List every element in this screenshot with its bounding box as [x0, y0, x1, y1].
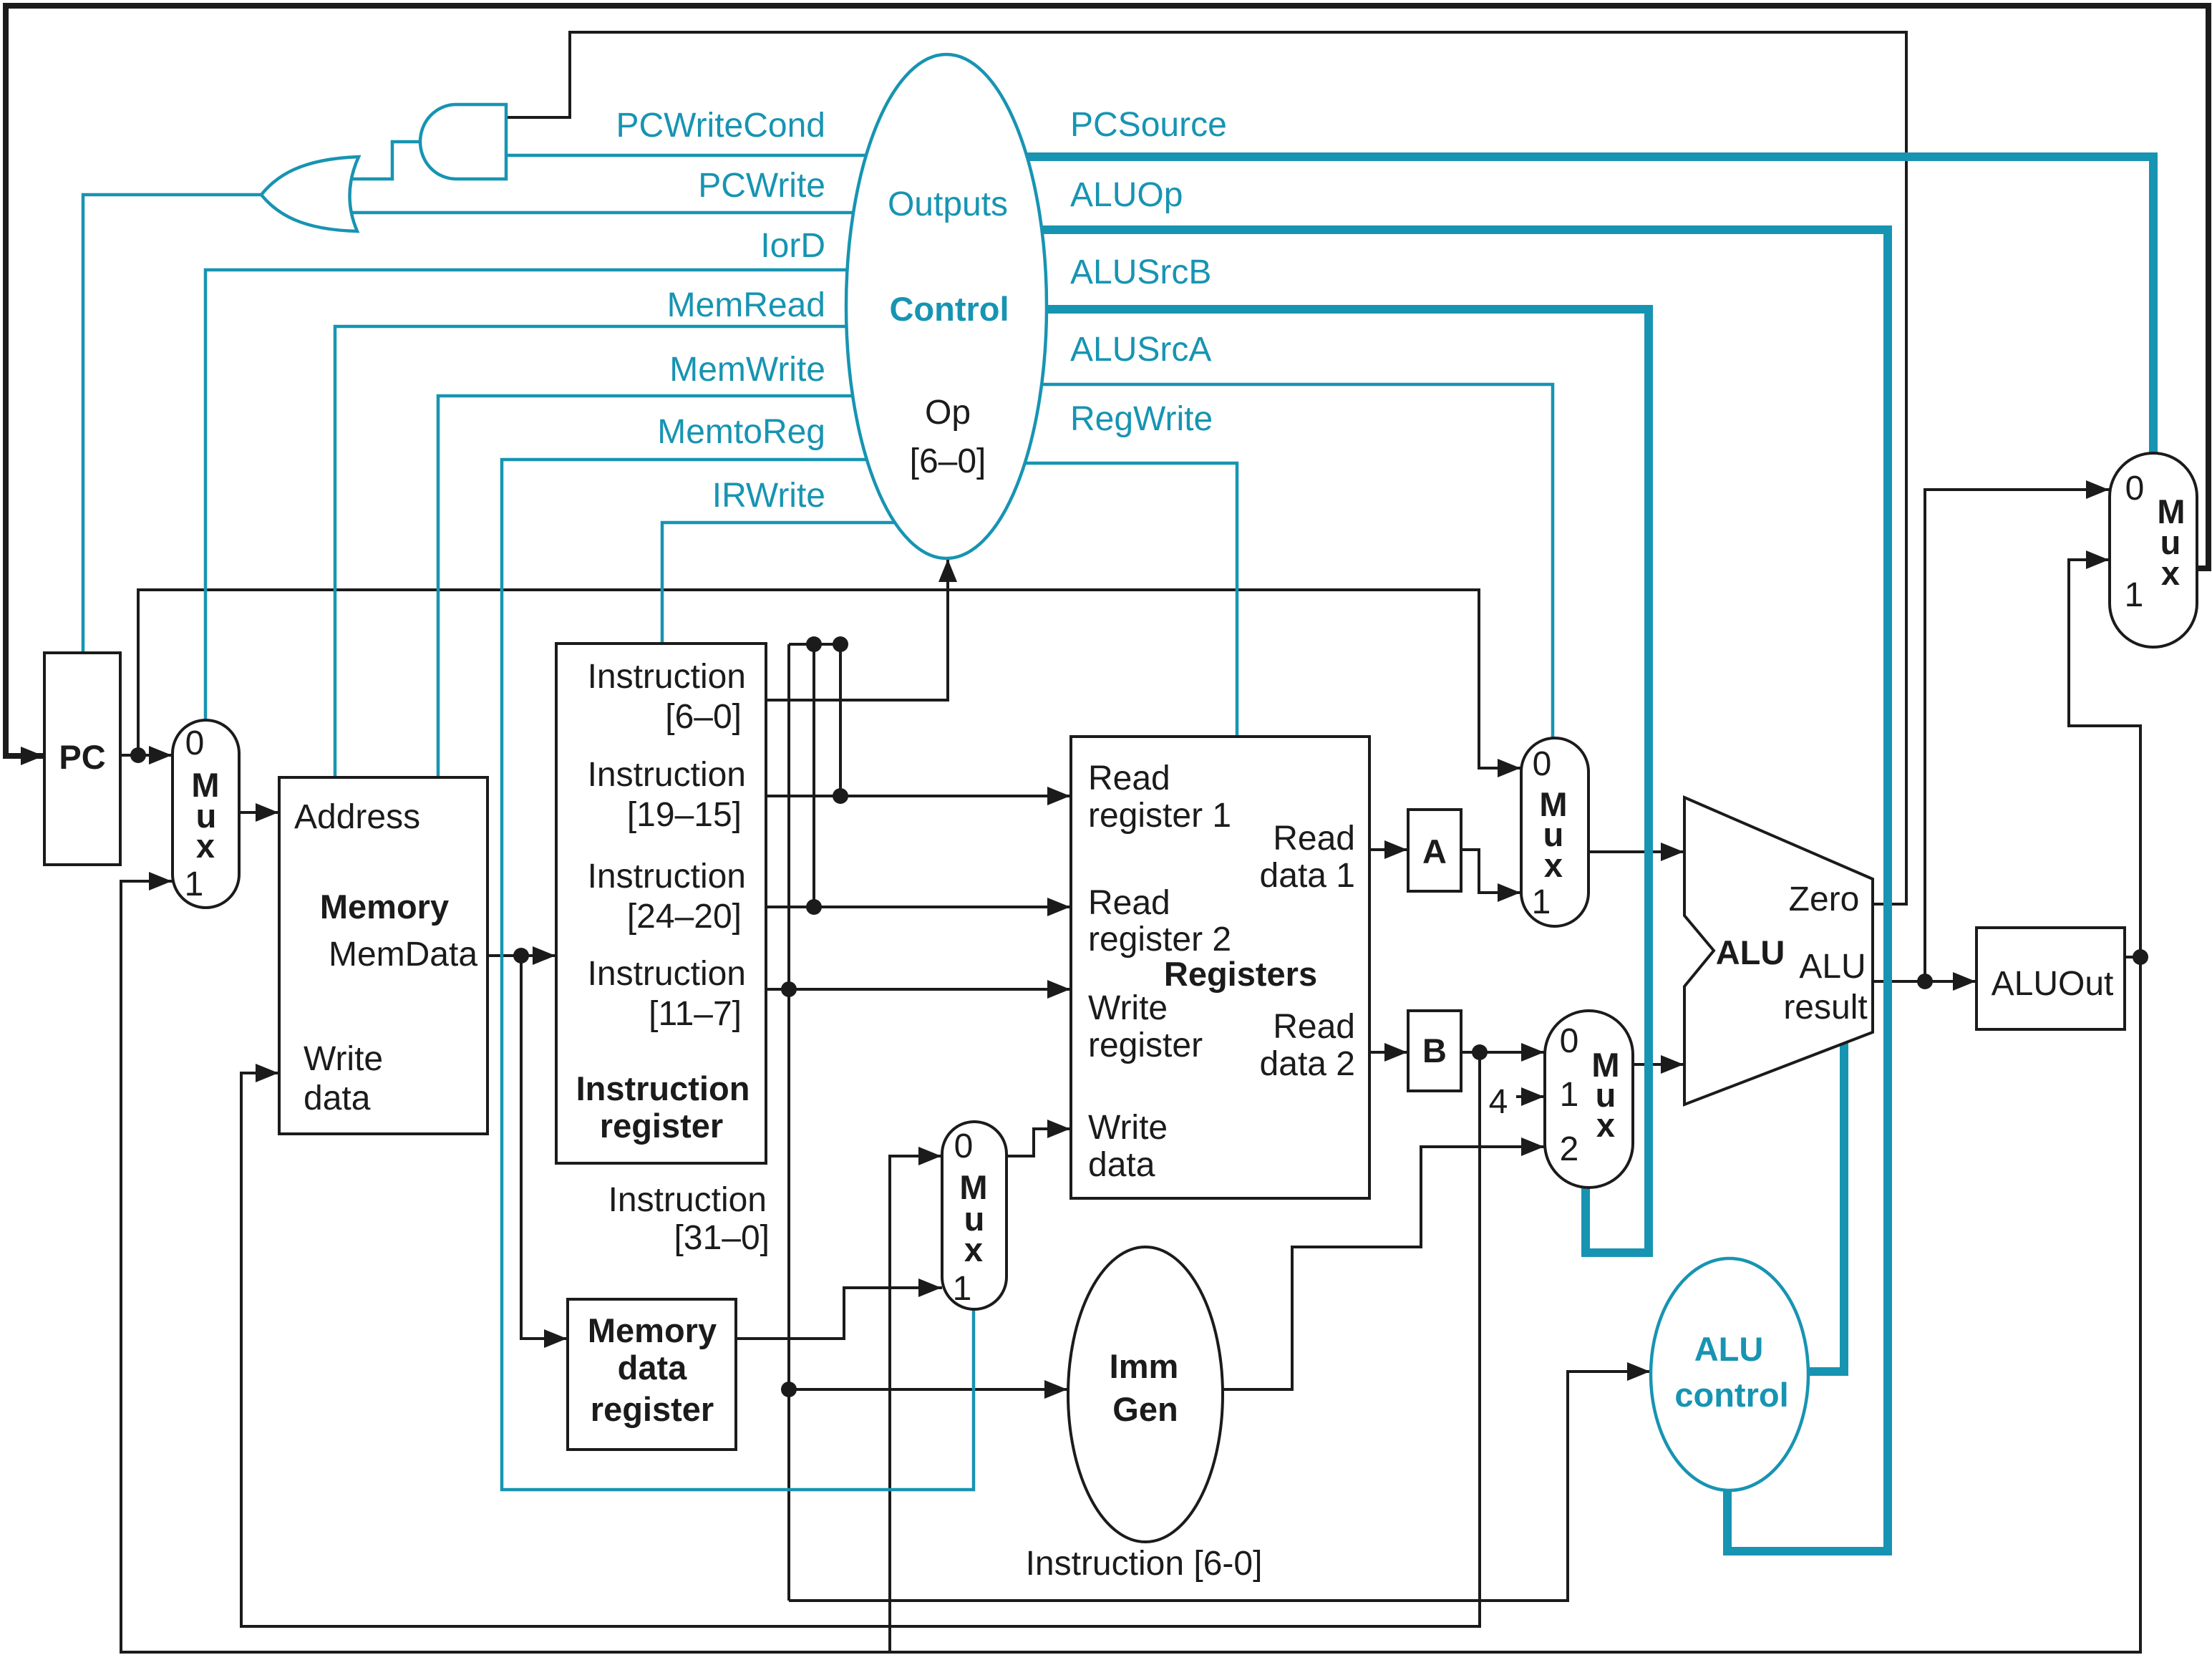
wire: ALU control output to ALU	[1808, 1043, 1844, 1372]
register B	[1408, 1011, 1461, 1091]
wire: Read data 2 to B register	[1369, 1051, 1408, 1054]
node: MemData junction	[513, 948, 529, 964]
Imm Gen ellipse	[1068, 1247, 1223, 1542]
wire: PC output to IorD mux input 0	[122, 754, 173, 757]
svg-text:1: 1	[953, 1270, 972, 1308]
mux A (ALUSrcA mux)	[1521, 738, 1588, 926]
svg-text:data: data	[304, 1079, 371, 1117]
svg-text:0: 0	[185, 724, 205, 762]
svg-text:Instruction [6-0]: Instruction [6-0]	[1026, 1545, 1263, 1583]
svg-text:data 1: data 1	[1260, 857, 1355, 895]
wire: MemWrite from Control to Memory	[438, 396, 855, 777]
wire: PCWrite from Control to OR gate	[352, 211, 855, 215]
wire: IRWrite from Control to Instruction register	[662, 523, 898, 644]
mux write-data (MemtoReg mux)	[942, 1122, 1006, 1309]
wire: MemRead from Control to Memory	[335, 326, 849, 777]
svg-text:Instruction: Instruction	[588, 955, 746, 993]
svg-text:[24–20]: [24–20]	[627, 898, 742, 936]
wire: A-mux output to ALU	[1588, 850, 1684, 853]
svg-text:Instruction: Instruction	[588, 756, 746, 794]
svg-text:Write: Write	[1088, 1109, 1168, 1147]
node: Instruction[19-15] tap junction	[833, 788, 848, 804]
svg-text:4: 4	[1489, 1083, 1508, 1121]
OR gate	[261, 157, 359, 231]
memory data register	[568, 1299, 736, 1450]
svg-text:Read: Read	[1088, 884, 1170, 922]
svg-text:register: register	[591, 1390, 714, 1428]
svg-text:1: 1	[185, 865, 204, 903]
svg-text:x: x	[2161, 554, 2180, 592]
wire: IorD mux output to Memory Address	[239, 811, 279, 814]
node: ALU result junction	[1917, 974, 1933, 989]
svg-text:[19–15]: [19–15]	[627, 796, 742, 834]
svg-text:1: 1	[2125, 576, 2144, 614]
mux IorD (below PC)	[173, 720, 239, 908]
svg-text:ALU: ALU	[1694, 1330, 1764, 1368]
svg-text:x: x	[1544, 846, 1563, 884]
ALU control ellipse	[1651, 1258, 1808, 1490]
instruction register	[556, 644, 766, 1163]
svg-text:0: 0	[1560, 1022, 1579, 1060]
node: Instruction[11-7] tap junction	[781, 981, 797, 997]
wire: Instruction[24-20] to Read register 2	[766, 906, 1071, 908]
node: ALUOut output junction	[2133, 949, 2148, 965]
wire: ALUSrcA from Control to A-mux select	[1039, 384, 1553, 738]
wire: write-data mux output to Registers Write data	[1006, 1129, 1071, 1156]
svg-text:x: x	[1596, 1106, 1615, 1144]
svg-text:Read: Read	[1088, 759, 1170, 797]
svg-text:Instruction: Instruction	[576, 1069, 750, 1107]
wire: PCSource from Control to PCSource mux select	[1024, 157, 2153, 453]
svg-text:Instruction: Instruction	[588, 858, 746, 895]
wire: OR gate output to PC write enable	[83, 195, 261, 653]
register file Registers	[1071, 737, 1369, 1198]
wire: B-mux output to ALU	[1633, 1063, 1684, 1066]
wire: instruction bus stub above IR	[789, 643, 840, 646]
wire: IorD from Control to IorD mux select	[205, 270, 850, 720]
svg-text:register 1: register 1	[1088, 797, 1231, 835]
control unit ellipse	[846, 54, 1047, 558]
svg-text:Zero: Zero	[1789, 880, 1860, 918]
svg-text:[31–0]: [31–0]	[674, 1219, 770, 1257]
wire: PC output up and across to A-mux input 0	[138, 590, 1521, 768]
svg-text:Control: Control	[889, 290, 1009, 328]
svg-text:Memory: Memory	[588, 1311, 717, 1349]
svg-text:ALUOut: ALUOut	[1992, 965, 2114, 1003]
svg-text:[11–7]: [11–7]	[649, 995, 742, 1033]
svg-text:Write: Write	[1088, 989, 1168, 1027]
node: B register output junction	[1472, 1044, 1488, 1060]
wire: Imm Gen output to B-mux input 2	[1223, 1147, 1545, 1389]
svg-text:x: x	[196, 827, 215, 865]
wire: B register loop to Memory Write data	[241, 1052, 1480, 1626]
svg-text:ALUSrcA: ALUSrcA	[1070, 331, 1211, 369]
svg-text:PCWrite: PCWrite	[698, 167, 825, 205]
wire: instruction tap to Instruction[24-20] line	[812, 644, 815, 907]
svg-text:Instruction: Instruction	[588, 658, 746, 696]
svg-text:MemData: MemData	[329, 936, 477, 974]
wire: instruction bus vertical to bottom	[787, 644, 790, 1601]
svg-text:Read: Read	[1273, 820, 1355, 858]
wire: ALUOut up to PCSource mux input 1	[2069, 560, 2140, 957]
svg-text:IorD: IorD	[760, 227, 825, 265]
svg-text:Registers: Registers	[1164, 955, 1317, 993]
svg-text:Gen: Gen	[1112, 1390, 1178, 1428]
wire: ALUSrcB from Control to B-mux select	[1044, 309, 1649, 1253]
svg-text:ALU: ALU	[1799, 948, 1866, 986]
wire: ALU result up to PCSource mux input 0	[1925, 490, 2110, 981]
wire: MemData branch down to Memory data register	[521, 956, 568, 1339]
wire: ALUOut bottom loop to write-data mux input 0	[890, 1156, 942, 1652]
svg-text:Imm: Imm	[1110, 1347, 1179, 1385]
svg-text:MemtoReg: MemtoReg	[657, 413, 825, 451]
svg-text:Memory: Memory	[320, 888, 449, 926]
svg-text:x: x	[964, 1231, 983, 1268]
svg-text:A: A	[1422, 833, 1447, 870]
wire: Instruction[19-15] to Read register 1	[766, 795, 1071, 797]
mux PCSource (top right)	[2110, 453, 2197, 647]
svg-text:IRWrite: IRWrite	[712, 477, 825, 515]
svg-text:Instruction: Instruction	[608, 1181, 767, 1219]
svg-text:data: data	[1088, 1146, 1155, 1184]
node: Instruction[24-20] tap junction	[806, 899, 822, 915]
mux B (ALUSrcB mux)	[1545, 1011, 1633, 1188]
wire: B register to B-mux input 0	[1461, 1051, 1545, 1054]
wire: ALUOp from Control to ALU control	[1039, 230, 1888, 1551]
svg-text:PCWriteCond: PCWriteCond	[616, 107, 825, 145]
svg-text:data: data	[618, 1349, 688, 1387]
wire: PCSource mux output loop around page to PC input	[6, 6, 2208, 756]
AND gate	[420, 105, 506, 179]
svg-text:RegWrite: RegWrite	[1070, 400, 1213, 438]
node: PC output junction	[130, 747, 146, 763]
wire: Zero loop from ALU around top to AND gate	[506, 32, 1906, 904]
svg-text:1: 1	[1560, 1076, 1579, 1114]
svg-text:PC: PC	[59, 738, 105, 776]
register PC	[44, 653, 120, 865]
svg-text:ALU: ALU	[1716, 933, 1785, 971]
svg-text:Write: Write	[304, 1040, 383, 1078]
wire: A register to A-mux input 1	[1461, 850, 1521, 893]
wire: Instruction[11-7] to Write register	[766, 988, 1071, 991]
wire: RegWrite from Control to Registers	[1022, 463, 1237, 737]
svg-text:1: 1	[1532, 883, 1551, 921]
wire: MemData output to Instruction register	[487, 954, 556, 957]
wire: ALU result to ALUOut	[1873, 980, 1976, 983]
wire: constant 4 to B-mux input 1	[1516, 1095, 1545, 1098]
svg-text:0: 0	[954, 1127, 974, 1165]
svg-text:Outputs: Outputs	[888, 185, 1008, 223]
wire: Instruction[6-0] to Control	[766, 558, 948, 700]
svg-text:result: result	[1783, 989, 1867, 1026]
register ALUOut	[1976, 928, 2125, 1029]
register A	[1408, 810, 1461, 891]
wire: Read data 1 to A register	[1369, 848, 1408, 851]
svg-text:2: 2	[1560, 1130, 1579, 1168]
svg-text:Op: Op	[925, 394, 971, 432]
svg-text:data 2: data 2	[1260, 1045, 1355, 1083]
wire: MemtoReg from Control to write-data mux select	[502, 460, 974, 1490]
svg-text:register 2: register 2	[1088, 921, 1231, 958]
wire: instruction tap to Instruction[19-15] line	[839, 644, 842, 796]
svg-text:PCSource: PCSource	[1070, 106, 1227, 144]
wire: PCWriteCond from Control to AND gate	[506, 154, 870, 157]
node: instruction bus stub junction 1	[806, 636, 822, 652]
svg-text:register: register	[1088, 1026, 1203, 1064]
svg-text:register: register	[600, 1107, 723, 1145]
svg-text:B: B	[1422, 1032, 1447, 1069]
wire: Instruction [6-0] to ALU control	[789, 1372, 1651, 1601]
wire: ALUOut bottom loop to IorD mux input 1	[121, 881, 2140, 1652]
svg-text:ALUOp: ALUOp	[1070, 176, 1183, 214]
wire: instruction bus to Imm Gen	[789, 1388, 1068, 1391]
node: Imm Gen feed junction	[781, 1382, 797, 1397]
svg-text:Address: Address	[294, 798, 420, 836]
svg-text:0: 0	[1533, 745, 1552, 783]
svg-text:ALUSrcB: ALUSrcB	[1070, 253, 1211, 291]
svg-text:MemRead: MemRead	[667, 286, 825, 324]
svg-text:[6–0]: [6–0]	[910, 442, 986, 480]
svg-text:0: 0	[2125, 470, 2145, 508]
wire: ALUOut output to right vertical	[2123, 956, 2140, 958]
memory unit	[279, 777, 487, 1134]
svg-text:MemWrite: MemWrite	[669, 351, 825, 389]
wire: AND output step to OR gate input	[340, 142, 422, 179]
svg-text:[6–0]: [6–0]	[665, 698, 742, 736]
svg-text:control: control	[1674, 1376, 1788, 1414]
wire: MDR output to write-data mux input 1	[736, 1288, 942, 1339]
node: instruction bus stub junction 2	[833, 636, 848, 652]
ALU	[1684, 797, 1873, 1105]
svg-text:Read: Read	[1273, 1008, 1355, 1046]
